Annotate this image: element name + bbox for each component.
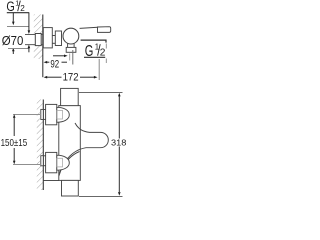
leader drop arrow 2 (to pipe) xyxy=(28,13,30,31)
text G1/2 label top-left xyxy=(6,0,25,15)
dim 92 upper arrow right xyxy=(53,55,65,57)
hatch gap at pipe xyxy=(33,34,42,45)
O70 bottom arrow left xyxy=(12,48,15,52)
underline of G1/2 xyxy=(7,12,29,14)
ext lines at outlet xyxy=(69,54,71,61)
bottom escutcheon xyxy=(46,152,57,172)
wall line bottom xyxy=(42,100,44,191)
dim 92 right stub xyxy=(62,61,68,63)
hatch gaps at nuts xyxy=(40,109,44,120)
dim 150+-15 ext bottom xyxy=(13,164,41,166)
bottom union nut lines xyxy=(43,155,45,157)
dim 318 ext bottom xyxy=(79,196,123,198)
text G1/2 right label xyxy=(85,43,106,60)
dim 318 line xyxy=(118,93,121,97)
bottom dome inner xyxy=(57,158,63,167)
dim 92 left arrow xyxy=(44,61,48,64)
svg-text:318: 318 xyxy=(111,137,127,147)
dim 150+-15 ext top xyxy=(13,114,41,116)
body block xyxy=(55,31,61,46)
svg-text:1: 1 xyxy=(95,43,99,52)
lever grip box xyxy=(98,27,111,33)
ball housing xyxy=(63,28,79,44)
lever top edge xyxy=(80,27,98,28)
wall line xyxy=(42,15,44,78)
leader drop arrow 1 xyxy=(12,13,14,22)
svg-text:Ø70: Ø70 xyxy=(2,33,24,48)
bottom handle xyxy=(62,180,79,196)
escutcheon xyxy=(43,28,52,48)
wall hatching bottom xyxy=(37,100,44,191)
leader line to shower outlet xyxy=(81,40,106,43)
svg-text:150±15: 150±15 xyxy=(1,138,28,149)
top dome inner xyxy=(57,110,63,119)
union nut xyxy=(35,34,41,46)
wall hatching top xyxy=(34,15,43,60)
body bottom line to wall xyxy=(43,180,59,182)
dim 150+-15 line lower xyxy=(13,148,15,161)
supply pipe xyxy=(25,34,43,36)
bottom union dome xyxy=(57,155,70,170)
outlet tube xyxy=(67,43,69,47)
top handle xyxy=(61,88,79,105)
svg-text:172: 172 xyxy=(63,72,79,84)
top union nut lines xyxy=(43,109,45,111)
svg-text:92: 92 xyxy=(50,58,59,70)
underline of right G1/2 xyxy=(84,56,105,58)
centerline dashes xyxy=(105,44,107,49)
extension line O70 top xyxy=(7,26,29,28)
aerator xyxy=(66,47,76,52)
dim 172 xyxy=(44,76,48,79)
dim 150+-15 line upper xyxy=(13,114,16,118)
neck xyxy=(52,35,55,37)
spout (front view) xyxy=(59,123,108,176)
pipe bottom arrow xyxy=(28,45,31,49)
top union pipe stub xyxy=(41,109,44,119)
extension line O70 bottom xyxy=(8,48,29,50)
svg-text:2: 2 xyxy=(20,4,25,13)
top union dome xyxy=(57,107,70,122)
bottom union pipe stub xyxy=(41,156,44,166)
body column xyxy=(59,106,81,181)
dim 318 ext top xyxy=(79,92,123,94)
top escutcheon xyxy=(46,104,57,124)
extension line for 172 xyxy=(98,59,100,80)
